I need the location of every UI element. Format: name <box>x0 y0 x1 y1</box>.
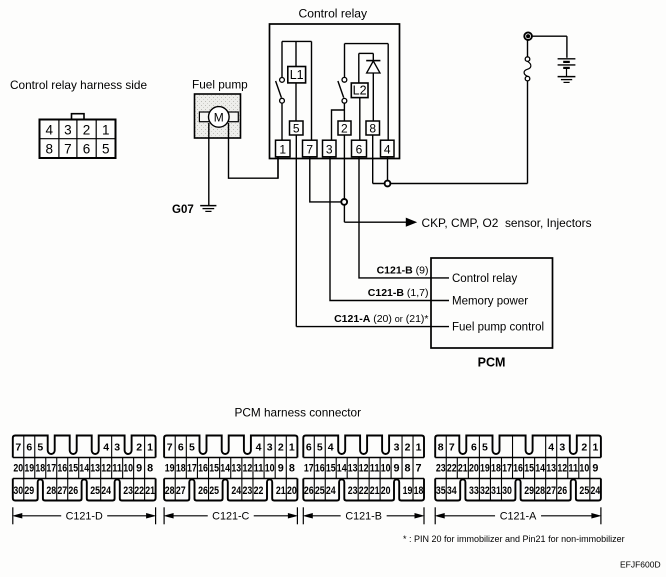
svg-text:4: 4 <box>548 441 554 453</box>
svg-text:13: 13 <box>231 463 241 475</box>
svg-text:6: 6 <box>178 441 184 453</box>
svg-text:21: 21 <box>276 485 286 497</box>
svg-text:19: 19 <box>165 463 175 475</box>
svg-text:19: 19 <box>480 463 490 475</box>
svg-text:2: 2 <box>581 441 587 453</box>
svg-text:22: 22 <box>134 485 144 497</box>
svg-text:16: 16 <box>198 463 208 475</box>
svg-text:4: 4 <box>45 122 53 137</box>
svg-text:10: 10 <box>381 463 391 475</box>
svg-text:30: 30 <box>502 485 512 497</box>
svg-text:8: 8 <box>369 122 376 136</box>
svg-text:1: 1 <box>416 441 422 453</box>
svg-text:5: 5 <box>482 441 488 453</box>
svg-text:M: M <box>214 110 224 124</box>
svg-text:L2: L2 <box>353 84 367 98</box>
svg-text:20: 20 <box>381 485 391 497</box>
svg-text:9: 9 <box>278 463 284 475</box>
svg-text:14: 14 <box>220 463 230 475</box>
svg-text:5: 5 <box>37 441 43 453</box>
svg-text:12: 12 <box>359 463 369 475</box>
svg-text:5: 5 <box>317 441 323 453</box>
svg-text:13: 13 <box>348 463 358 475</box>
svg-text:20: 20 <box>469 463 479 475</box>
svg-text:15: 15 <box>68 463 78 475</box>
svg-text:29: 29 <box>24 485 34 497</box>
svg-text:14: 14 <box>337 463 347 475</box>
svg-text:7: 7 <box>306 143 313 157</box>
svg-text:27: 27 <box>176 485 186 497</box>
svg-text:1: 1 <box>289 441 295 453</box>
svg-text:25: 25 <box>579 485 589 497</box>
svg-text:C121-A: C121-A <box>500 511 537 523</box>
svg-text:9: 9 <box>136 463 142 475</box>
svg-text:L1: L1 <box>290 68 304 82</box>
svg-text:5: 5 <box>293 122 300 136</box>
svg-text:11: 11 <box>254 463 264 475</box>
svg-text:8: 8 <box>438 441 444 453</box>
svg-text:9: 9 <box>592 463 598 475</box>
svg-text:27: 27 <box>546 485 556 497</box>
svg-text:PCM harness connector: PCM harness connector <box>235 406 362 420</box>
svg-text:7: 7 <box>416 463 422 475</box>
svg-text:34: 34 <box>447 485 457 497</box>
svg-text:7: 7 <box>15 441 21 453</box>
svg-text:17: 17 <box>304 463 314 475</box>
svg-text:14: 14 <box>535 463 545 475</box>
svg-text:9: 9 <box>394 463 400 475</box>
svg-text:C121-B: C121-B <box>345 511 382 523</box>
svg-text:Control relay: Control relay <box>299 7 369 21</box>
svg-text:22: 22 <box>359 485 369 497</box>
svg-text:C121-B (1,7): C121-B (1,7) <box>368 287 429 299</box>
svg-text:5: 5 <box>189 441 195 453</box>
svg-text:15: 15 <box>209 463 219 475</box>
svg-text:3: 3 <box>326 143 333 157</box>
svg-text:31: 31 <box>491 485 501 497</box>
svg-text:28: 28 <box>46 485 56 497</box>
svg-text:30: 30 <box>13 485 23 497</box>
svg-text:Control relay harness side: Control relay harness side <box>10 78 147 92</box>
svg-text:6: 6 <box>471 441 477 453</box>
svg-text:C121-A (20) or (21)*: C121-A (20) or (21)* <box>334 313 428 325</box>
svg-text:26: 26 <box>304 485 314 497</box>
svg-text:7: 7 <box>167 441 173 453</box>
svg-text:24: 24 <box>326 485 336 497</box>
svg-text:EFJF600D: EFJF600D <box>620 560 661 570</box>
svg-text:* : PIN 20 for immobilizer and: * : PIN 20 for immobilizer and Pin21 for… <box>403 534 625 544</box>
svg-text:7: 7 <box>64 142 72 157</box>
svg-text:8: 8 <box>405 463 411 475</box>
svg-text:16: 16 <box>315 463 325 475</box>
svg-text:8: 8 <box>45 142 53 157</box>
svg-text:10: 10 <box>579 463 589 475</box>
svg-text:27: 27 <box>57 485 67 497</box>
svg-text:1: 1 <box>102 122 110 137</box>
svg-text:13: 13 <box>90 463 100 475</box>
svg-text:11: 11 <box>370 463 380 475</box>
svg-text:22: 22 <box>254 485 264 497</box>
svg-text:24: 24 <box>590 485 600 497</box>
svg-text:24: 24 <box>101 485 111 497</box>
svg-text:16: 16 <box>57 463 67 475</box>
svg-text:32: 32 <box>480 485 490 497</box>
svg-text:29: 29 <box>524 485 534 497</box>
svg-text:3: 3 <box>114 441 120 453</box>
svg-text:11: 11 <box>112 463 122 475</box>
svg-text:19: 19 <box>403 485 413 497</box>
svg-text:14: 14 <box>79 463 89 475</box>
svg-text:17: 17 <box>187 463 197 475</box>
svg-text:23: 23 <box>123 485 133 497</box>
svg-text:12: 12 <box>557 463 567 475</box>
svg-text:4: 4 <box>384 143 391 157</box>
svg-text:2: 2 <box>136 441 142 453</box>
svg-text:CKP, CMP, O2 sensor, Injector: CKP, CMP, O2 sensor, Injectors <box>422 216 592 230</box>
svg-text:4: 4 <box>256 441 262 453</box>
svg-text:C121-D: C121-D <box>66 511 103 523</box>
svg-text:3: 3 <box>64 122 72 137</box>
svg-text:4: 4 <box>103 441 109 453</box>
svg-text:8: 8 <box>147 463 153 475</box>
svg-text:6: 6 <box>356 143 363 157</box>
svg-text:23: 23 <box>436 463 446 475</box>
svg-text:5: 5 <box>102 142 110 157</box>
svg-text:Memory power: Memory power <box>452 296 528 308</box>
svg-text:12: 12 <box>243 463 253 475</box>
svg-text:3: 3 <box>559 441 565 453</box>
svg-text:20: 20 <box>13 463 23 475</box>
svg-text:21: 21 <box>370 485 380 497</box>
svg-text:20: 20 <box>287 485 297 497</box>
svg-text:18: 18 <box>414 485 424 497</box>
svg-text:16: 16 <box>513 463 523 475</box>
svg-text:2: 2 <box>405 441 411 453</box>
svg-text:28: 28 <box>165 485 175 497</box>
svg-text:17: 17 <box>502 463 512 475</box>
svg-text:6: 6 <box>83 142 91 157</box>
svg-text:26: 26 <box>68 485 78 497</box>
svg-text:C121-C: C121-C <box>212 511 249 523</box>
svg-text:Fuel pump: Fuel pump <box>192 78 248 92</box>
svg-text:4: 4 <box>328 441 334 453</box>
svg-text:18: 18 <box>176 463 186 475</box>
svg-text:7: 7 <box>449 441 455 453</box>
svg-text:1: 1 <box>592 441 598 453</box>
svg-text:25: 25 <box>315 485 325 497</box>
svg-text:C121-B (9): C121-B (9) <box>377 264 429 276</box>
svg-text:26: 26 <box>198 485 208 497</box>
svg-text:24: 24 <box>231 485 241 497</box>
svg-text:Control relay: Control relay <box>452 273 517 285</box>
svg-text:3: 3 <box>267 441 273 453</box>
svg-text:10: 10 <box>123 463 133 475</box>
svg-text:Fuel pump control: Fuel pump control <box>452 322 544 334</box>
svg-text:23: 23 <box>243 485 253 497</box>
svg-text:28: 28 <box>535 485 545 497</box>
svg-text:35: 35 <box>436 485 446 497</box>
svg-text:PCM: PCM <box>478 356 506 370</box>
svg-text:21: 21 <box>145 485 155 497</box>
svg-text:6: 6 <box>26 441 32 453</box>
svg-text:2: 2 <box>278 441 284 453</box>
svg-text:25: 25 <box>209 485 219 497</box>
svg-text:25: 25 <box>90 485 100 497</box>
svg-text:G07: G07 <box>172 204 194 216</box>
svg-text:2: 2 <box>83 122 91 137</box>
svg-text:6: 6 <box>306 441 312 453</box>
svg-text:8: 8 <box>289 463 295 475</box>
svg-text:12: 12 <box>101 463 111 475</box>
svg-text:3: 3 <box>394 441 400 453</box>
svg-text:21: 21 <box>458 463 468 475</box>
svg-text:23: 23 <box>348 485 358 497</box>
svg-text:22: 22 <box>447 463 457 475</box>
svg-text:11: 11 <box>568 463 578 475</box>
svg-text:1: 1 <box>147 441 153 453</box>
svg-text:10: 10 <box>265 463 275 475</box>
svg-text:19: 19 <box>24 463 34 475</box>
svg-text:15: 15 <box>524 463 534 475</box>
svg-text:18: 18 <box>35 463 45 475</box>
svg-text:18: 18 <box>491 463 501 475</box>
svg-text:26: 26 <box>557 485 567 497</box>
svg-text:13: 13 <box>546 463 556 475</box>
svg-text:33: 33 <box>469 485 479 497</box>
svg-text:2: 2 <box>341 122 348 136</box>
svg-text:1: 1 <box>279 143 286 157</box>
svg-text:17: 17 <box>46 463 56 475</box>
svg-text:15: 15 <box>326 463 336 475</box>
